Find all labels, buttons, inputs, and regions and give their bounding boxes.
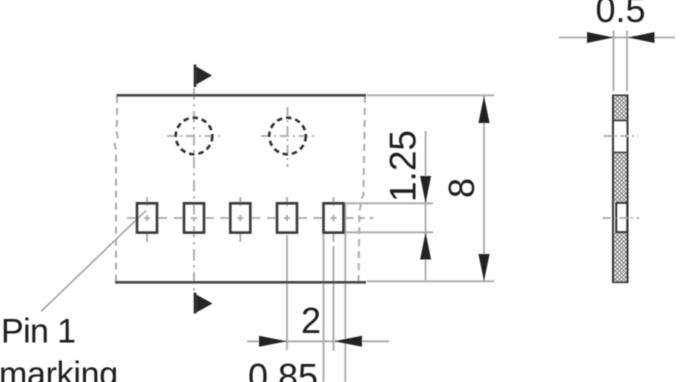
- svg-text:0.85: 0.85: [248, 356, 318, 382]
- dimension 8: top extension line: [367, 94, 494, 96]
- svg-text:Pin 1: Pin 1: [1, 313, 76, 351]
- label Pin 1 marking: [0, 313, 118, 382]
- svg-text:8: 8: [441, 178, 482, 198]
- dimension 1.25 line: [420, 131, 431, 280]
- dimension 2: extension line at P4 centerline: [286, 235, 288, 350]
- dimension 2 line: [247, 336, 389, 347]
- pocket P1: [137, 203, 157, 232]
- tape right break edge: [359, 96, 366, 281]
- sprocket hole S2: [269, 118, 306, 155]
- dimension 0.5: right extension line: [626, 31, 628, 92]
- dimension 2: extension line at P5 centerline: [333, 250, 335, 351]
- side view sprocket hole centerline: [604, 135, 639, 137]
- side view sprocket hole window: [613, 152, 628, 154]
- dimension 8 line: [478, 96, 489, 281]
- dimension 0.85 value label: [248, 356, 318, 382]
- sprocket hole S2 vertical centerline: [287, 107, 289, 167]
- side view tape strip right edge: [627, 95, 629, 284]
- side view hatched section bottom: [613, 233, 628, 282]
- tape left break edge: [115, 96, 118, 281]
- side view hatched section middle: [614, 153, 627, 202]
- feed direction flag bottom: [195, 293, 213, 314]
- pocket P4 crosshair centerlines: [267, 197, 307, 221]
- svg-text:2: 2: [301, 300, 321, 341]
- dimension 0.5 line: [559, 32, 675, 43]
- dimension 2 value label: [301, 300, 321, 341]
- feed direction flag top: [195, 65, 212, 88]
- pocket P2: [184, 203, 204, 232]
- pocket P4: [277, 203, 297, 232]
- pin 1 leader line: [41, 211, 146, 312]
- sprocket hole S1 vertical centerline: [193, 88, 195, 292]
- tape top edge: [117, 94, 367, 97]
- svg-text:marking: marking: [0, 356, 118, 382]
- dimension 0.5: left extension line: [613, 31, 615, 92]
- pocket P5: [324, 203, 344, 232]
- dimension 0.85: left extension line (P5 left edge): [323, 234, 325, 382]
- side view tape strip left edge: [612, 95, 614, 284]
- sprocket hole S2 horizontal centerline: [261, 135, 316, 137]
- dimension 0.5 value label: [595, 0, 645, 30]
- svg-text:1.25: 1.25: [383, 130, 424, 202]
- sprocket hole S1 horizontal centerline: [167, 135, 222, 137]
- pocket P3: [230, 203, 250, 232]
- dimension 1.25: bottom extension line (P5 pocket bottom): [344, 231, 433, 233]
- dimension 1.25 value label: [383, 130, 424, 202]
- pocket P1 crosshair centerlines: [127, 197, 167, 242]
- dimension 8 value label: [441, 178, 482, 198]
- sprocket hole S1: [176, 118, 213, 155]
- svg-text:0.5: 0.5: [595, 0, 645, 30]
- pocket P2 crosshair centerlines: [174, 217, 214, 219]
- side view pocket window: [616, 203, 627, 232]
- side view hatched section top: [613, 95, 628, 121]
- dimension 1.25: top extension line (P5 pocket top): [344, 202, 433, 204]
- pocket P5 crosshair centerlines: [314, 197, 374, 250]
- dimension 8: bottom extension line: [367, 280, 494, 282]
- side view pocket centerline: [603, 217, 640, 219]
- pocket P3 crosshair centerlines: [220, 197, 260, 242]
- tape bottom edge: [115, 281, 366, 284]
- dimension 0.85: right extension line (P5 right edge): [344, 203, 346, 382]
